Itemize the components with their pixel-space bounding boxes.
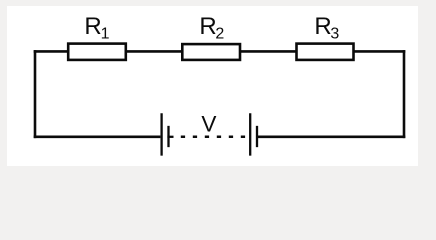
svg-text:R: R <box>199 13 216 40</box>
svg-text:1: 1 <box>101 26 110 43</box>
battery V long plate left <box>160 114 162 154</box>
wire: bottom right segment <box>257 136 405 139</box>
battery V short plate right <box>256 127 258 146</box>
svg-text:R: R <box>314 13 331 40</box>
label R2 <box>199 13 224 43</box>
resistor R1 <box>68 44 126 60</box>
svg-text:V: V <box>201 111 216 136</box>
wire: stub right of left short plate <box>167 136 173 138</box>
wire: top horizontal <box>34 50 406 53</box>
battery V long plate right <box>249 114 251 154</box>
wire: dashed section between battery cells <box>181 136 245 139</box>
label R3 <box>314 13 339 43</box>
battery V short plate left <box>167 127 169 146</box>
white schematic canvas <box>7 6 418 166</box>
wire: bottom left segment <box>34 136 161 139</box>
resistor R3 <box>297 44 354 60</box>
svg-text:3: 3 <box>330 26 339 43</box>
svg-text:R: R <box>84 13 101 40</box>
resistor R2 <box>182 44 240 60</box>
wire: left vertical <box>34 51 37 136</box>
label R1 <box>84 13 109 43</box>
svg-text:2: 2 <box>215 26 224 43</box>
wire: right vertical <box>403 51 406 136</box>
